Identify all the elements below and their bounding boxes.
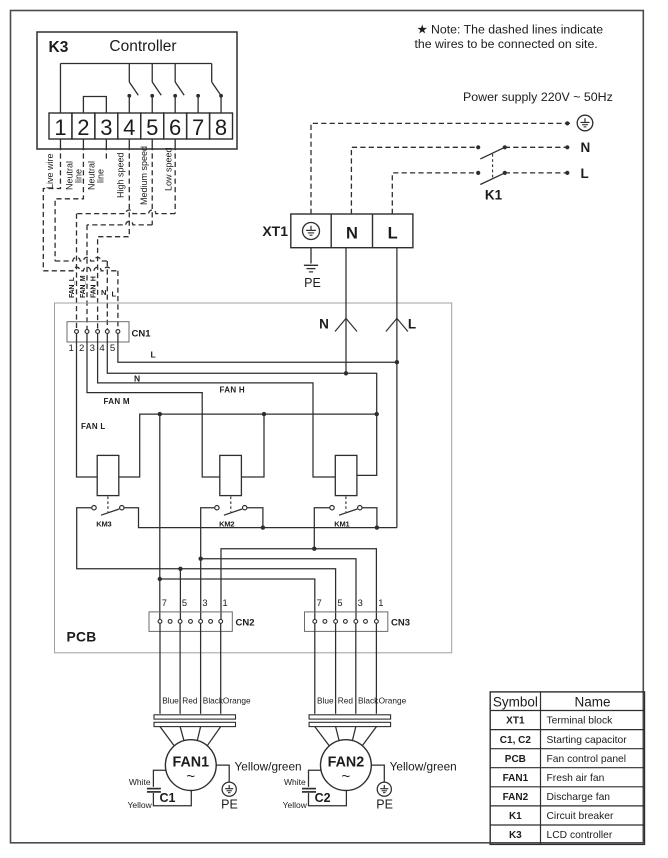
svg-text:Orange: Orange — [223, 696, 251, 706]
svg-text:Name: Name — [574, 694, 610, 709]
svg-text:5: 5 — [337, 598, 342, 608]
svg-text:Yellow/green: Yellow/green — [390, 759, 457, 773]
svg-text:XT1: XT1 — [506, 716, 525, 727]
svg-text:8: 8 — [215, 115, 227, 140]
svg-text:2: 2 — [77, 115, 89, 140]
svg-text:FAN2: FAN2 — [503, 792, 529, 803]
svg-text:7: 7 — [317, 598, 322, 608]
svg-text:K1: K1 — [509, 811, 522, 822]
svg-text:CN2: CN2 — [236, 618, 255, 629]
svg-text:Blue: Blue — [317, 696, 334, 706]
svg-text:PCB: PCB — [67, 630, 97, 645]
svg-text:N: N — [101, 288, 106, 297]
svg-text:Fresh air fan: Fresh air fan — [547, 773, 605, 784]
svg-text:FAN_H: FAN_H — [90, 276, 97, 298]
svg-text:~: ~ — [186, 768, 195, 785]
svg-text:Red: Red — [338, 696, 354, 706]
svg-text:1: 1 — [223, 598, 228, 608]
svg-text:N: N — [134, 374, 140, 384]
svg-text:~: ~ — [342, 768, 351, 785]
svg-text:Black: Black — [203, 696, 224, 706]
svg-text:N: N — [346, 225, 358, 243]
svg-text:L: L — [388, 225, 398, 243]
svg-text:Discharge fan: Discharge fan — [547, 792, 611, 803]
svg-text:FAN_M: FAN_M — [80, 275, 87, 298]
svg-text:Yellow: Yellow — [128, 800, 153, 810]
svg-text:Low speed: Low speed — [164, 147, 174, 191]
svg-text:PE: PE — [304, 276, 321, 290]
svg-text:FAN L: FAN L — [81, 422, 106, 431]
svg-text:Black: Black — [358, 696, 379, 706]
svg-text:L: L — [581, 166, 589, 181]
svg-text:PE: PE — [221, 798, 238, 812]
svg-text:5: 5 — [182, 598, 187, 608]
svg-text:3: 3 — [202, 598, 207, 608]
svg-text:LCD controller: LCD controller — [547, 830, 613, 841]
svg-text:Controller: Controller — [109, 38, 176, 55]
svg-text:1: 1 — [378, 598, 383, 608]
svg-text:Orange: Orange — [379, 696, 407, 706]
svg-text:the wires to be connected on s: the wires to be connected on site. — [415, 37, 598, 51]
svg-text:line: line — [74, 169, 84, 183]
svg-text:Yellow: Yellow — [283, 800, 308, 810]
svg-text:3: 3 — [90, 343, 95, 354]
svg-text:N: N — [319, 317, 329, 332]
svg-text:2: 2 — [79, 343, 84, 354]
svg-text:C1, C2: C1, C2 — [500, 735, 532, 746]
svg-text:★ Note: The dashed lines indic: ★ Note: The dashed lines indicate — [417, 23, 604, 37]
svg-text:White: White — [129, 777, 151, 787]
svg-text:4: 4 — [123, 115, 135, 140]
svg-text:7: 7 — [192, 115, 204, 140]
svg-text:Blue: Blue — [162, 696, 179, 706]
svg-text:7: 7 — [162, 598, 167, 608]
svg-text:CN3: CN3 — [391, 618, 410, 629]
svg-text:Circuit breaker: Circuit breaker — [547, 811, 615, 822]
svg-text:FAN_L: FAN_L — [69, 276, 76, 298]
svg-text:L: L — [408, 317, 416, 332]
svg-text:FAN1: FAN1 — [503, 773, 529, 784]
svg-text:White: White — [284, 777, 306, 787]
svg-text:K3: K3 — [49, 39, 69, 56]
svg-text:5: 5 — [110, 343, 115, 354]
svg-text:PE: PE — [376, 798, 393, 812]
svg-text:C2: C2 — [315, 791, 331, 805]
svg-text:3: 3 — [358, 598, 363, 608]
svg-text:Red: Red — [182, 696, 198, 706]
svg-text:L: L — [112, 290, 117, 299]
svg-text:FAN M: FAN M — [104, 397, 130, 406]
svg-text:Live wire: Live wire — [45, 153, 55, 189]
svg-text:KM3: KM3 — [96, 520, 111, 529]
svg-text:XT1: XT1 — [262, 223, 288, 239]
svg-text:PCB: PCB — [505, 754, 526, 765]
svg-text:Fan control panel: Fan control panel — [547, 754, 627, 765]
svg-text:K1: K1 — [485, 188, 503, 203]
svg-text:1: 1 — [54, 115, 66, 140]
svg-text:Power supply 220V ~ 50Hz: Power supply 220V ~ 50Hz — [463, 90, 613, 104]
svg-text:CN1: CN1 — [132, 329, 152, 340]
svg-text:High speed: High speed — [116, 152, 126, 198]
svg-text:Terminal block: Terminal block — [547, 716, 614, 727]
svg-text:5: 5 — [146, 115, 158, 140]
svg-text:Starting capacitor: Starting capacitor — [547, 735, 628, 746]
svg-text:3: 3 — [100, 115, 112, 140]
svg-text:FAN H: FAN H — [220, 385, 246, 394]
svg-text:K3: K3 — [509, 830, 522, 841]
svg-text:Yellow/green: Yellow/green — [235, 759, 302, 773]
svg-text:Symbol: Symbol — [493, 694, 538, 709]
svg-text:6: 6 — [169, 115, 181, 140]
svg-text:C1: C1 — [160, 791, 176, 805]
svg-text:1: 1 — [69, 343, 74, 354]
svg-text:line: line — [96, 169, 106, 183]
svg-text:L: L — [151, 350, 156, 360]
svg-text:N: N — [581, 140, 591, 155]
svg-text:4: 4 — [99, 343, 105, 354]
svg-text:Medium speed: Medium speed — [139, 146, 149, 205]
